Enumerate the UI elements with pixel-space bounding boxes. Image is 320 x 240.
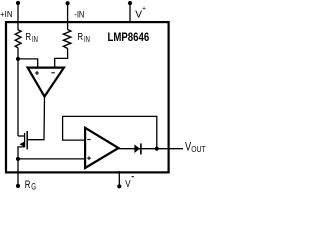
wire RIN2 tail to U1 minus input	[55, 49, 68, 68]
channel bar	[24, 133, 26, 147]
node V- terminal	[117, 184, 121, 188]
node RG terminal	[16, 184, 20, 188]
svg-text:G: G	[31, 181, 36, 191]
transistor Q1 MOSFET	[18, 131, 27, 159]
wire node A down to MOSFET drain	[17, 59, 19, 136]
resistor RIN1	[15, 30, 21, 48]
svg-text:OUT: OUT	[191, 144, 205, 154]
drain lead	[18, 135, 25, 137]
label U1 plus	[35, 71, 39, 75]
diode D1	[134, 144, 140, 153]
wire V- to box	[118, 171, 120, 186]
label U2 minus	[87, 139, 90, 141]
source arrow	[19, 141, 25, 147]
wire V+ to box	[129, 3, 131, 23]
svg-text:R: R	[77, 32, 83, 43]
wire node A to U1 plus input	[18, 59, 38, 68]
node B junction dot (source/RG)	[16, 157, 20, 161]
svg-text:V: V	[125, 179, 131, 190]
source lead	[18, 147, 25, 159]
node C junction dot	[155, 147, 159, 151]
wire -IN down to RIN2	[67, 3, 69, 29]
node +IN terminal	[16, 1, 20, 5]
node V+ terminal	[128, 1, 132, 5]
op-amp U1	[28, 68, 64, 97]
svg-text:+: +	[142, 5, 146, 12]
svg-text:R: R	[25, 32, 31, 43]
node A junction dot	[16, 57, 20, 61]
wire U1 output to MOSFET gate	[27, 97, 44, 140]
svg-text:LMP8646: LMP8646	[108, 30, 150, 44]
wire feedback loop node C to U2 minus input	[63, 116, 157, 148]
wire node B down to RG terminal	[17, 159, 19, 186]
wire node B to U2 plus input	[18, 158, 85, 160]
svg-text:V: V	[135, 9, 142, 21]
wire node C to VOUT	[157, 148, 183, 150]
label U2 plus	[87, 156, 91, 160]
IC boundary box	[6, 22, 169, 172]
wire +IN down to RIN1	[17, 3, 19, 30]
resistor RIN2	[63, 30, 70, 49]
wire U2 output through diode to node C	[119, 148, 157, 150]
svg-text:R: R	[25, 179, 31, 191]
svg-text:V: V	[185, 140, 191, 154]
node -IN terminal	[66, 1, 70, 5]
svg-text:+IN: +IN	[0, 9, 12, 19]
svg-text:-IN: -IN	[74, 10, 84, 20]
label U1 minus	[51, 72, 54, 74]
gate bar	[26, 131, 28, 149]
wire RIN1 to node A	[17, 48, 19, 59]
op-amp U2	[85, 128, 118, 168]
svg-text:IN: IN	[32, 35, 38, 44]
svg-text:IN: IN	[84, 35, 90, 44]
